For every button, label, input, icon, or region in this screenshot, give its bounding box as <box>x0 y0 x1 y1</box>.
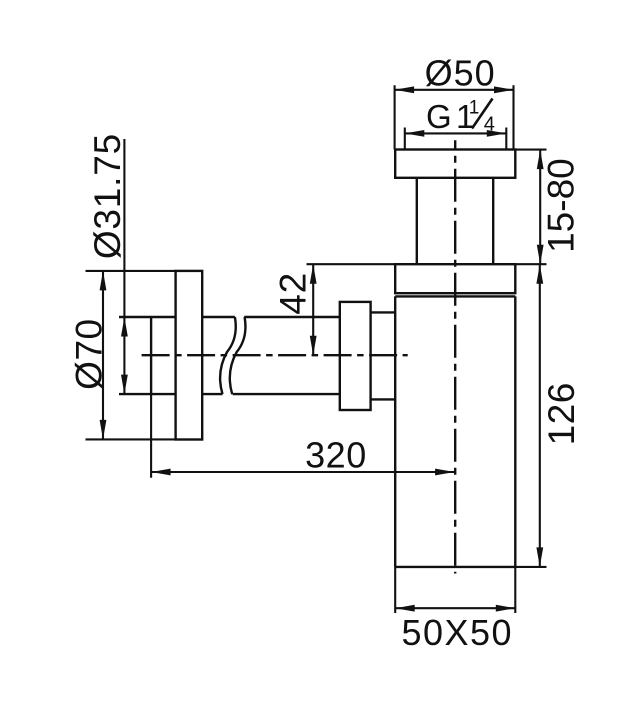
wall flange <box>176 271 203 440</box>
dim 50x50 ext lines <box>394 567 396 613</box>
centerlines <box>142 140 456 573</box>
body centerline <box>454 140 456 573</box>
svg-text:4: 4 <box>484 114 495 136</box>
O31.75 top arrow <box>121 317 128 337</box>
dim O31.75 line <box>123 139 125 394</box>
arrowheads <box>100 86 544 611</box>
svg-text:50X50: 50X50 <box>401 612 513 653</box>
body right wall <box>514 296 516 567</box>
dim 320 left ext <box>150 394 152 478</box>
dim 126 line <box>539 264 541 567</box>
dim 42 ext <box>307 263 396 265</box>
O70 top arrow <box>100 271 107 291</box>
svg-text:Ø50: Ø50 <box>425 53 496 94</box>
fraction slash <box>472 99 493 129</box>
O70 bottom arrow <box>100 420 107 440</box>
threaded tube right side <box>492 178 494 264</box>
42 bottom arrow <box>310 336 317 356</box>
15-80 top arrow <box>537 150 544 170</box>
dim 50x50 line <box>395 607 515 609</box>
15-80 bottom arrow <box>537 245 544 265</box>
dim G line <box>405 132 507 134</box>
dim O70 line <box>102 271 104 440</box>
left nut left edge <box>150 317 152 394</box>
dim O50 ext lines <box>394 85 396 149</box>
42 top arrow <box>310 264 317 284</box>
dim 15-80 ext top <box>515 149 546 151</box>
pipe centerline <box>142 354 408 356</box>
svg-text:Ø31.75: Ø31.75 <box>87 133 128 259</box>
G size right arrow <box>487 130 507 137</box>
break wave 1 <box>220 317 236 394</box>
50x50 left arrow <box>395 605 415 612</box>
dim 320 line <box>151 471 455 473</box>
pipe top segments <box>119 316 176 318</box>
dim 126 ext bottom <box>515 566 546 568</box>
top flange nut <box>395 150 515 178</box>
svg-text:320: 320 <box>305 435 367 476</box>
dimensions <box>86 85 547 613</box>
ext at nut top right <box>515 263 546 265</box>
body left wall <box>394 296 396 567</box>
50x50 right arrow <box>496 605 516 612</box>
O50 left arrow <box>395 86 415 93</box>
svg-text:15-80: 15-80 <box>541 158 582 253</box>
320 right arrow <box>435 469 455 476</box>
body top nut <box>395 264 515 293</box>
O50 right arrow <box>494 86 514 93</box>
dim 42 line <box>312 264 314 355</box>
body bottom <box>395 566 515 568</box>
dim O70 ext top <box>86 270 176 272</box>
threaded tube left side <box>416 178 418 264</box>
O31.75 bottom arrow <box>121 375 128 395</box>
dim G ext lines <box>404 128 406 150</box>
svg-text:126: 126 <box>541 382 582 445</box>
svg-text:1: 1 <box>469 98 480 119</box>
126 top arrow <box>536 264 543 284</box>
126 bottom arrow <box>536 547 543 567</box>
sleeve bottom <box>371 398 396 400</box>
320 left arrow <box>151 469 171 476</box>
svg-text:Ø70: Ø70 <box>68 318 109 389</box>
sleeve top <box>371 311 396 313</box>
dim 15-80 line <box>539 150 541 265</box>
G size left arrow <box>405 130 425 137</box>
pipe bottom segments <box>119 393 176 395</box>
dim O70 ext bottom <box>86 438 176 440</box>
svg-text:G: G <box>426 98 452 135</box>
dim O50 line <box>395 89 514 91</box>
gasket line <box>395 295 515 297</box>
svg-text:42: 42 <box>273 272 314 315</box>
break wave 2 <box>230 317 246 394</box>
right nut <box>340 302 371 410</box>
